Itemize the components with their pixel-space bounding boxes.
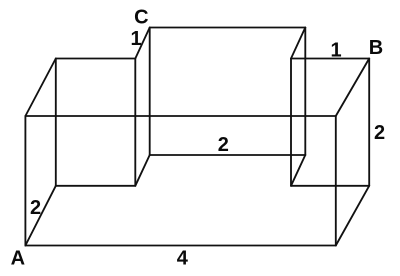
edge block depth top-left (length 1) bbox=[135, 28, 149, 59]
edge back mid-left vertical bbox=[134, 59, 136, 186]
edge front-bottom (length 4) bbox=[25, 245, 335, 247]
svg-text:2: 2 bbox=[30, 197, 41, 219]
edge depth top-left bbox=[25, 59, 55, 117]
svg-text:1: 1 bbox=[330, 40, 341, 62]
svg-text:1: 1 bbox=[130, 28, 141, 50]
edge block-right vertical bbox=[304, 28, 306, 156]
edge depth bottom-right bbox=[336, 186, 369, 246]
edge depth top-right (to B) bbox=[336, 59, 369, 117]
svg-text:C: C bbox=[134, 7, 148, 29]
edge back-right vertical (length 2) bbox=[368, 59, 370, 186]
edge block-left vertical bbox=[149, 28, 151, 156]
edge back-bottom-left segment bbox=[56, 185, 136, 187]
edge block depth bottom-left bbox=[135, 155, 149, 186]
edge block-top (C) bbox=[150, 27, 306, 29]
svg-text:2: 2 bbox=[218, 134, 229, 156]
edge block depth top-right bbox=[291, 28, 305, 59]
edge back mid-right vertical bbox=[290, 59, 292, 186]
edge back-bottom-right segment bbox=[291, 185, 369, 187]
edge block depth bottom-right bbox=[291, 155, 305, 186]
edge front-left vertical bbox=[24, 116, 26, 246]
edge back-left vertical bbox=[55, 59, 57, 186]
svg-text:B: B bbox=[369, 37, 383, 59]
svg-text:A: A bbox=[11, 248, 25, 270]
edge depth bottom-left (A, length 2) bbox=[25, 186, 55, 246]
edge back-top-right segment (length 1) bbox=[291, 58, 369, 60]
svg-text:4: 4 bbox=[177, 248, 189, 270]
edge front-right vertical bbox=[335, 116, 337, 246]
edge block-bottom (length 2) bbox=[150, 154, 306, 156]
edge front-top bbox=[25, 115, 335, 117]
svg-text:2: 2 bbox=[374, 122, 385, 144]
edge back-top-left segment bbox=[56, 58, 136, 60]
